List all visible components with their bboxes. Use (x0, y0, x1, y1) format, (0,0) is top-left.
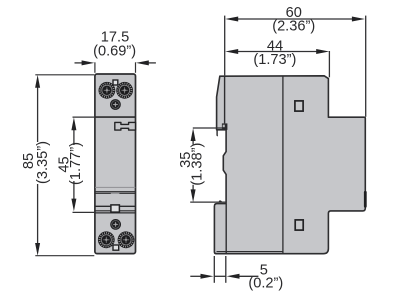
dim 45 line (73, 129, 75, 145)
dim 60 extension lines (224, 16, 226, 76)
internal vertical line mid body (282, 77, 284, 254)
svg-text:(1.73”): (1.73”) (253, 52, 296, 68)
dim 45 extension lines (73, 116, 95, 118)
latch window (111, 205, 120, 212)
upper small square (side) (295, 101, 303, 111)
terminal screw top-right (116, 82, 133, 99)
terminal screw bottom-right (118, 231, 135, 248)
mid lines band (95, 186, 135, 188)
dim 17.5 lines (75, 62, 83, 64)
bottom indicator screw (110, 219, 121, 230)
dim 44 extension line right (328, 51, 330, 77)
svg-text:(3.35”): (3.35”) (35, 141, 51, 184)
terminal screw top-left (99, 82, 116, 99)
dim 44 line (238, 51, 317, 53)
internal line front bezel junction bottom (225, 204, 227, 253)
dim 35 line (192, 139, 194, 145)
dim 5 line (190, 275, 201, 277)
front view body (95, 74, 136, 254)
top DIN claw (222, 123, 228, 129)
dim 85 line (37, 87, 39, 143)
actuator handle (115, 122, 136, 130)
dim 60 line (238, 18, 352, 20)
internal bottom line (217, 251, 283, 253)
top small square (113, 80, 118, 85)
dim 85 extension lines (35, 74, 94, 76)
DIN rail clip end (364, 191, 367, 208)
bottom small square (113, 245, 119, 250)
svg-text:(2.36”): (2.36”) (272, 19, 315, 35)
terminal screw bottom-left (98, 231, 115, 248)
side view body outline (214, 76, 365, 254)
lower lines band (95, 205, 135, 207)
dim 5 extension lines (213, 256, 215, 283)
svg-text:(1.77”): (1.77”) (68, 142, 84, 185)
svg-text:(0.2”): (0.2”) (248, 276, 283, 292)
internal line front bezel junction top (224, 76, 226, 123)
svg-text:(0.69”): (0.69”) (93, 43, 136, 59)
dim 35 extension lines (193, 127, 223, 129)
bottom DIN claw (219, 200, 223, 202)
svg-text:(1.38”): (1.38”) (189, 143, 205, 186)
lower small square (side) (295, 220, 303, 230)
divider line upper (95, 116, 135, 118)
top bezel lip line (216, 130, 219, 136)
top indicator screw (110, 99, 121, 110)
dim 17.5 extension lines (94, 62, 96, 73)
